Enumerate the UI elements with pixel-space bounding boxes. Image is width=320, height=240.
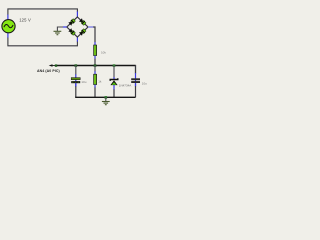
bridge rectifier edges <box>67 17 88 37</box>
zener diode DZ1 <box>110 78 118 85</box>
wire: C1 lower lead <box>75 83 77 86</box>
ground bus (lower bus) <box>75 96 135 98</box>
svg-text:10u: 10u <box>142 81 147 85</box>
wire: C1 upper lead <box>75 66 77 75</box>
wire: bottom loop from source to bridge <box>8 37 78 46</box>
wire: blue stub from bridge bottom vertex <box>76 37 78 42</box>
wire: top loop from source to bridge <box>8 9 78 15</box>
svg-text:1k: 1k <box>98 80 102 84</box>
wire: R2 lower lead <box>94 85 96 88</box>
wire: zener upper lead <box>113 66 115 78</box>
svg-text:1N4734A: 1N4734A <box>119 83 132 87</box>
resistor R1 <box>94 45 97 56</box>
ground GND2 <box>102 102 110 105</box>
port arrow AN4 <box>49 64 53 67</box>
ground GND1 <box>54 31 62 34</box>
wire: R1 to bus <box>94 56 96 59</box>
wire: blue pin below source <box>7 33 9 38</box>
capacitor C2 <box>131 78 140 83</box>
wire: right vertex to rail <box>88 26 94 28</box>
diode D4 bottom-right <box>79 28 86 35</box>
wire: bus corner down to C2 <box>135 65 137 74</box>
wire: blue lead into R1 <box>94 42 96 45</box>
junction dot at ground <box>105 96 108 99</box>
svg-text:10k: 10k <box>101 50 106 54</box>
background <box>0 0 150 109</box>
svg-text:10u: 10u <box>81 80 86 84</box>
wire: blue pin above source <box>7 15 9 21</box>
wire: zener lower lead <box>113 85 115 90</box>
wire: C2 lower lead <box>135 83 137 86</box>
diode D2 top-right <box>79 18 86 25</box>
diode D3 bottom-left <box>68 28 75 35</box>
diode D1 top-left <box>68 18 75 25</box>
node dot at port <box>52 65 57 67</box>
junction dot at zener branch <box>113 64 116 67</box>
wire: ground stem <box>105 97 107 101</box>
wire: R2 upper lead <box>94 66 96 72</box>
AC source V1 <box>2 20 15 33</box>
resistor R2 <box>94 74 97 84</box>
svg-text:AN4 (A0 PIC): AN4 (A0 PIC) <box>37 69 60 73</box>
wire: blue stub into bridge top vertex <box>76 12 78 18</box>
wire: left vertex to ground <box>63 26 67 28</box>
capacitor C1 <box>71 78 80 84</box>
junction dot at C1 branch <box>75 64 78 67</box>
node AN4 bus (upper bus) <box>56 65 135 67</box>
junction dot at R2 branch <box>94 64 97 67</box>
svg-text:125 V: 125 V <box>19 18 31 23</box>
